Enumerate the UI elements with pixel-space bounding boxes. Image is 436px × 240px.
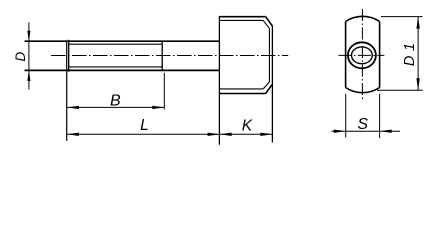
svg-text:L: L xyxy=(140,117,149,134)
svg-text:D1: D1 xyxy=(402,38,418,66)
right view bottom arc xyxy=(346,88,380,93)
dimension K left arrowhead xyxy=(220,133,232,136)
svg-text:S: S xyxy=(357,116,368,133)
dimension D1 line xyxy=(417,17,419,91)
outer circle (shank through head view) xyxy=(348,42,376,68)
dimension B line xyxy=(67,106,164,108)
screw tip chamfer line xyxy=(68,40,70,72)
head right face (merged with K extension line continuing down) xyxy=(271,26,273,142)
screw outer top line (crest/shank top, merged with D extension line) xyxy=(25,40,220,42)
svg-text:D: D xyxy=(13,51,28,61)
right view vertical centerline xyxy=(361,9,363,101)
dimension D1 top arrowhead xyxy=(416,17,419,29)
head inner chamfer line right xyxy=(268,28,270,82)
right view right flat xyxy=(379,22,381,88)
screw outer bottom line (crest/shank bottom, merged with D extension line) xyxy=(25,69,220,71)
thread root line bottom (thin) xyxy=(69,66,163,68)
extension line thread end (B right) xyxy=(163,73,165,110)
head top-right chamfer xyxy=(266,17,273,26)
head inner chamfer line bottom xyxy=(219,88,263,90)
dimension D bottom arrowhead xyxy=(27,71,30,82)
dimension S extension left xyxy=(345,94,347,138)
dimension L right arrowhead xyxy=(208,133,220,136)
inner circle (chamfer) xyxy=(352,47,373,64)
dimension D top arrowhead xyxy=(27,31,30,42)
right view left flat xyxy=(345,22,347,88)
dimension D1 bottom arrowhead xyxy=(416,78,419,90)
right view top arc xyxy=(346,16,380,21)
svg-text:B: B xyxy=(110,93,121,110)
head inner chamfer line top xyxy=(219,19,263,21)
dimension S left arrowhead (outside, pointing right) xyxy=(334,130,346,133)
dimension L left arrowhead xyxy=(67,133,79,136)
head outline top xyxy=(219,16,265,18)
thread end line xyxy=(161,41,163,71)
screw axis centerline xyxy=(51,55,288,57)
head inner chamfer diagonal bottom-right xyxy=(263,82,269,89)
dimension D1 extension bottom xyxy=(377,89,423,91)
thread root line top (thin) xyxy=(69,43,163,45)
dimension B right arrowhead xyxy=(152,106,164,109)
dimension S extension right xyxy=(379,94,381,138)
dimension D1 extension top xyxy=(381,16,423,18)
dimension S line xyxy=(332,130,400,132)
svg-text:K: K xyxy=(242,117,253,134)
head bottom-right chamfer xyxy=(266,84,273,93)
head left face (merged with K/L extension line continuing down) xyxy=(218,16,220,145)
dimension L/K line xyxy=(67,133,273,135)
dimension B left arrowhead xyxy=(67,106,79,109)
head inner chamfer diagonal top-right xyxy=(263,20,269,28)
screw tip face (also L/B extension line continuing down) xyxy=(66,41,68,141)
dimension K right arrowhead xyxy=(260,133,272,136)
dimension D line xyxy=(28,22,30,89)
dimension S right arrowhead (outside, pointing left) xyxy=(380,130,392,133)
right view horizontal centerline xyxy=(338,54,384,56)
head outline bottom xyxy=(219,93,265,95)
